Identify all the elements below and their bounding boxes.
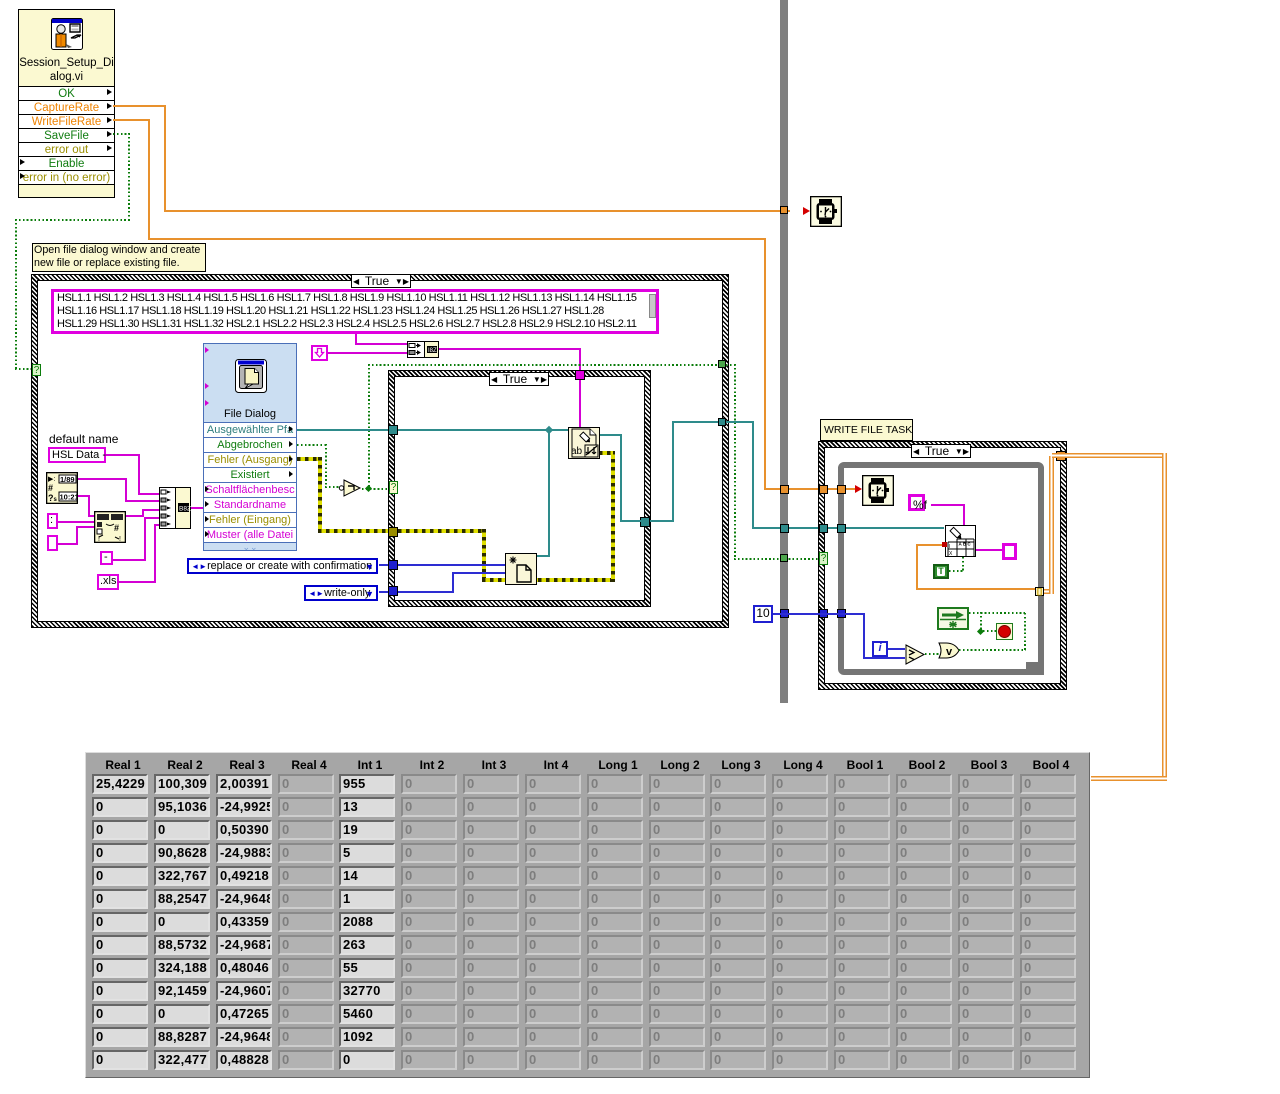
wire string from HSL constant — [355, 334, 357, 344]
svg-text:I8Z: I8Z — [428, 348, 437, 354]
svg-text:#: # — [48, 483, 53, 493]
constant empty string — [47, 535, 58, 551]
selector terminal ? outer — [32, 364, 41, 376]
function Wait Until Next ms Multiple 1 — [810, 196, 842, 227]
case structure WRITE FILE TASK — [819, 442, 1066, 689]
wire path out — [297, 429, 391, 431]
wire WriteFileRate orange — [113, 119, 150, 121]
label default name — [49, 432, 118, 446]
OR gate — [938, 642, 960, 659]
svg-text:v: v — [946, 646, 953, 658]
tunnel pink top — [575, 370, 585, 380]
svg-text:#: # — [114, 523, 119, 533]
arrowhead into Wait ms — [803, 207, 810, 215]
tunnel autoindex [] — [1035, 587, 1044, 596]
enum replace or create with confirmation — [187, 558, 378, 574]
subVI Session_Setup_Dialog.vi — [18, 9, 115, 198]
tunnel blue on divider — [780, 609, 789, 618]
wire date out — [78, 478, 127, 480]
wire path inside — [398, 429, 568, 431]
tunnel orange right WFT — [1056, 451, 1066, 461]
node Format Date/Time String — [46, 472, 78, 504]
while loop border — [838, 462, 1044, 675]
wire abgebrochen boolean — [297, 444, 327, 446]
numeric constant 10 — [753, 605, 773, 623]
wire orange array double outside — [1044, 589, 1052, 594]
tunnel teal on divider — [780, 524, 789, 533]
selector terminal ? inner — [389, 481, 398, 494]
label WRITE FILE TASK — [820, 419, 913, 441]
svg-text:ab: ab — [571, 446, 583, 457]
node2 out wire — [126, 515, 144, 517]
tunnel orange2 on divider — [780, 485, 789, 494]
wire boolean to WFT selector — [368, 364, 727, 366]
NOT gate — [338, 478, 364, 498]
string constant %f — [908, 494, 925, 511]
svg-text:B8Z: B8Z — [179, 506, 191, 513]
wire CaptureRate orange — [113, 105, 166, 107]
svg-text:!: ! — [119, 536, 121, 543]
array table control — [85, 752, 1090, 1078]
node: string/array converter — [407, 341, 439, 358]
wire blue enums inside — [398, 564, 506, 566]
wire time out — [78, 495, 90, 497]
svg-text:I: I — [949, 544, 950, 550]
svg-text:▶:: ▶: — [48, 476, 55, 483]
stop button — [996, 623, 1013, 640]
constant : — [47, 513, 58, 529]
svg-text:!: ! — [98, 536, 100, 543]
icon: path-to-string (down arrow) — [311, 345, 328, 361]
node Concatenate Strings — [159, 487, 191, 529]
svg-text:10:21: 10:21 — [60, 493, 79, 502]
express VI File Dialog — [203, 343, 297, 551]
wire error out — [297, 457, 322, 461]
comparator >= — [905, 644, 926, 665]
constant .xls — [97, 574, 119, 590]
case structure (inner True) — [389, 371, 650, 606]
selector terminal ? WFT — [819, 552, 828, 565]
svg-text:1/89: 1/89 — [60, 475, 75, 484]
function Wait Until Next ms Multiple 2 — [862, 475, 894, 506]
tunnel orange on divider — [780, 206, 788, 214]
comment: open file dialog — [32, 243, 206, 272]
node Format Into Table — [945, 525, 976, 557]
function Open/Create/Replace File — [505, 553, 537, 585]
wire teal to WFT — [650, 520, 674, 522]
string constant HSL Data - — [48, 447, 106, 463]
wire HSL Data to concat — [106, 454, 140, 456]
constant - — [100, 551, 113, 565]
case selector True outer — [351, 274, 411, 288]
wire refnum out of write — [599, 434, 622, 436]
svg-text:A B C: A B C — [959, 542, 972, 547]
node Seconds To Date/Time — [94, 511, 126, 543]
wire error inside — [398, 529, 486, 533]
enum write-only — [304, 585, 378, 601]
table cells — [92, 774, 148, 794]
wire orange array inside loop — [916, 544, 942, 546]
string indicator box — [1002, 543, 1017, 560]
coercion dot — [942, 542, 947, 547]
case structure (outer True) — [32, 275, 728, 627]
subVI green write/flush — [937, 607, 969, 630]
iteration terminal i — [872, 641, 888, 657]
wire or output dotted — [959, 649, 1026, 651]
wire pink inside — [579, 380, 581, 427]
tunnel teal right — [640, 517, 650, 527]
boolean constant T — [933, 564, 949, 579]
function Write to Text File — [568, 427, 600, 459]
wire SaveFile boolean dotted — [113, 133, 130, 135]
divider bar — [780, 0, 788, 703]
string constant HSL list — [51, 289, 659, 334]
